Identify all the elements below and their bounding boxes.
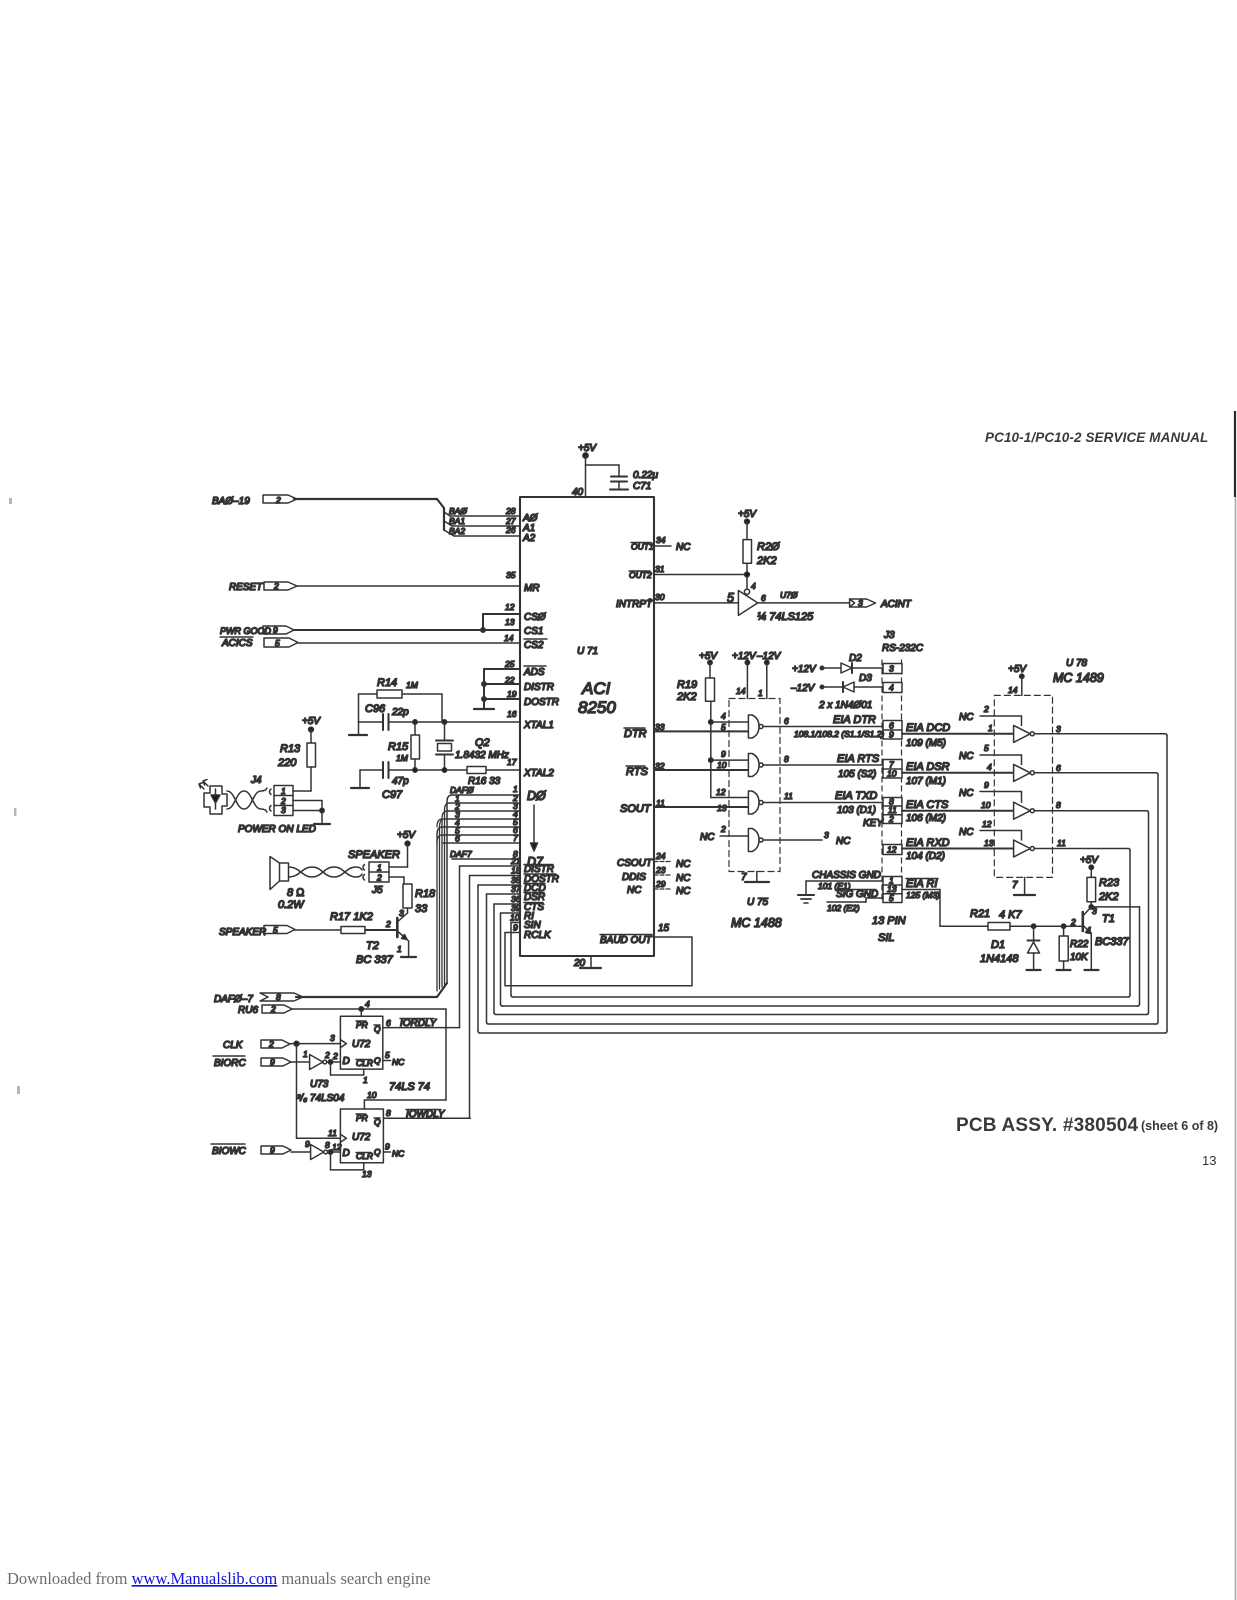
resistor R21 4K7 (940, 923, 1083, 931)
resistor R22 10K (1057, 926, 1071, 970)
svg-text:R14: R14 (377, 677, 397, 689)
svg-text:BA1: BA1 (449, 516, 465, 526)
svg-text:0.22μ: 0.22μ (633, 470, 658, 481)
connector J5 (369, 862, 389, 882)
svg-text:2: 2 (888, 814, 894, 824)
svg-text:2K2: 2K2 (676, 691, 697, 703)
svg-text:7: 7 (513, 833, 518, 843)
J4 pin wires (293, 791, 330, 824)
input arrow ACICS (264, 638, 298, 647)
svg-text:EIA RXD: EIA RXD (906, 837, 950, 849)
svg-text:109 (M5): 109 (M5) (906, 738, 946, 749)
svg-text:T2: T2 (366, 940, 379, 952)
svg-text:RS-232C: RS-232C (882, 643, 924, 654)
svg-text:11: 11 (656, 798, 665, 808)
pin RTS 32 (654, 769, 748, 771)
svg-text:6: 6 (761, 593, 766, 603)
svg-text:NC: NC (676, 886, 691, 897)
svg-text:R18: R18 (415, 888, 436, 900)
svg-text:EIA DTR: EIA DTR (833, 714, 876, 726)
svg-text:Q2: Q2 (475, 737, 490, 749)
power on LED symbol (199, 780, 227, 815)
input arrow BIOWC (261, 1146, 291, 1154)
svg-text:J4: J4 (250, 775, 262, 786)
bus arrow BA0-19 (263, 495, 454, 536)
svg-text:D: D (343, 1148, 350, 1159)
wire D6 pin 7 (442, 842, 520, 844)
svg-text:13 PIN: 13 PIN (872, 915, 906, 927)
input arrow RESET (264, 582, 297, 590)
svg-text:0.2W: 0.2W (278, 899, 305, 911)
svg-text:U 75: U 75 (747, 897, 769, 908)
svg-text:BIOWC: BIOWC (212, 1146, 247, 1157)
svg-text:NC: NC (700, 832, 715, 843)
svg-text:23: 23 (655, 865, 666, 875)
svg-text:NC: NC (392, 1057, 405, 1067)
svg-text:IORDLY: IORDLY (400, 1018, 438, 1029)
svg-text:10: 10 (887, 769, 897, 779)
svg-text:+5V: +5V (1080, 855, 1099, 866)
svg-text:XTAL1: XTAL1 (523, 720, 554, 731)
svg-text:3: 3 (824, 830, 829, 840)
twisted pair to J5 (289, 865, 365, 881)
svg-text:NC: NC (676, 859, 691, 870)
wire RCLK pin 9 / BAUDOUT loop (505, 933, 692, 986)
+12V feed with diode D2 (820, 663, 883, 673)
svg-text:R19: R19 (677, 679, 697, 691)
bus arrow DAF0-7 (260, 993, 303, 1001)
wire BA1 to A1 pin 27 (452, 525, 520, 527)
R19 pull-up rail to gate inputs (709, 701, 749, 797)
svg-text:12: 12 (332, 1142, 342, 1152)
J5 pin1 wire to +5V (389, 844, 408, 868)
svg-text:NC: NC (627, 885, 642, 896)
IC U71 ACI 8250 body (520, 497, 654, 956)
svg-text:CSOUT: CSOUT (617, 858, 653, 869)
svg-text:2 x 1N4Ø01: 2 x 1N4Ø01 (818, 700, 872, 711)
svg-text:8250: 8250 (578, 698, 616, 717)
svg-text:NC: NC (959, 788, 974, 799)
scan speck 2 (14, 808, 17, 816)
receiver gate DCD (1014, 725, 1035, 742)
U72b clear loop pin 13 (331, 1152, 364, 1170)
svg-text:32: 32 (655, 761, 665, 771)
receiver gate RXD (1014, 840, 1035, 857)
svg-text:8 Ω: 8 Ω (287, 887, 305, 899)
svg-text:2: 2 (983, 704, 989, 714)
svg-text:SPEAKER: SPEAKER (219, 927, 266, 938)
-12V rail to U75 pin 1 (765, 660, 769, 698)
svg-text:37: 37 (511, 884, 521, 894)
svg-text:33: 33 (415, 903, 428, 915)
svg-text:4: 4 (889, 683, 894, 693)
J3 pin box 3 (883, 664, 902, 674)
bus return CTS (496, 811, 1149, 1015)
svg-text:A2: A2 (522, 533, 536, 544)
svg-text:BC 337: BC 337 (356, 954, 394, 966)
twisted pair to J4 (227, 788, 271, 812)
svg-text:3: 3 (889, 664, 894, 674)
svg-text:+5V: +5V (397, 830, 416, 841)
input arrow BIORC (261, 1058, 291, 1066)
input arrow PWRGOOD (263, 626, 294, 634)
svg-text:C96: C96 (365, 703, 386, 715)
svg-text:D: D (343, 1056, 350, 1067)
svg-text:CLK: CLK (223, 1040, 244, 1051)
svg-text:NC: NC (959, 751, 974, 762)
svg-text:¼ 74LS125: ¼ 74LS125 (757, 611, 814, 623)
svg-text:5: 5 (727, 591, 734, 605)
svg-text:DAF7: DAF7 (450, 849, 472, 859)
svg-text:19: 19 (507, 689, 517, 699)
nand driver gate RTS (748, 754, 883, 777)
svg-text:MC 1488: MC 1488 (731, 916, 782, 930)
svg-text:1: 1 (303, 1049, 308, 1059)
nand driver gate TXD (748, 791, 883, 814)
svg-text:U7Ø: U7Ø (780, 590, 799, 600)
svg-text:6: 6 (455, 834, 460, 844)
svg-text:D2: D2 (849, 653, 862, 664)
svg-text:5: 5 (721, 722, 726, 732)
svg-text:10: 10 (717, 760, 727, 770)
svg-text:R23: R23 (1099, 877, 1120, 889)
svg-text:22: 22 (504, 675, 515, 685)
svg-text:5: 5 (275, 638, 280, 648)
U75 MC1488 dashed outline (729, 699, 780, 872)
svg-text:KEY: KEY (863, 818, 884, 829)
net RI collector wire (1091, 907, 1139, 1006)
svg-text:DØ: DØ (527, 789, 547, 803)
svg-text:1N4148: 1N4148 (980, 953, 1019, 965)
wire DSR pin 37 (487, 894, 521, 1024)
svg-text:XTAL2: XTAL2 (523, 768, 554, 779)
svg-text:7: 7 (741, 872, 747, 883)
svg-text:9: 9 (385, 1142, 390, 1152)
svg-text:12: 12 (982, 819, 992, 829)
wire DISTR pin 21 / IORDLY net (460, 866, 521, 1028)
svg-text:ACI: ACI (581, 679, 611, 698)
svg-text:74LS 74: 74LS 74 (389, 1081, 430, 1093)
U78 ground pin 7 (1014, 877, 1035, 895)
svg-text:9: 9 (305, 1139, 310, 1149)
inverter U73b (291, 1145, 340, 1160)
resistor R14 1M (359, 690, 443, 722)
svg-text:14: 14 (1008, 685, 1018, 695)
buffer U70 1/4 74LS125 (738, 589, 757, 615)
svg-text:ACINT: ACINT (880, 599, 912, 610)
bus return RI (503, 1005, 1138, 1007)
loudspeaker symbol (270, 857, 289, 890)
svg-text:SOUT: SOUT (620, 803, 652, 815)
svg-text:1: 1 (988, 723, 993, 733)
svg-text:PC10-1/PC10-2 SERVICE MANUAL: PC10-1/PC10-2 SERVICE MANUAL (985, 430, 1208, 445)
svg-text:1: 1 (363, 1075, 368, 1085)
capacitor C71 0.22u (610, 465, 628, 490)
svg-text:INTRPT: INTRPT (616, 599, 653, 610)
svg-text:10: 10 (981, 800, 991, 810)
svg-text:R21: R21 (970, 908, 990, 920)
svg-text:17: 17 (507, 757, 517, 767)
J3 dashed column (882, 660, 902, 902)
svg-text:ACICS: ACICS (221, 638, 253, 649)
wire CTS pin 36 (494, 904, 520, 1015)
svg-text:33: 33 (655, 722, 665, 732)
svg-text:6: 6 (784, 716, 789, 726)
svg-text:8: 8 (784, 754, 789, 764)
svg-text:CSØ: CSØ (524, 612, 547, 623)
net IOWDLY from U72b pin 8 (383, 1117, 470, 1119)
nand driver gate DTR (748, 715, 883, 738)
svg-text:NC: NC (959, 712, 974, 723)
wire EIA RXD to receiver (902, 848, 1014, 850)
wire D3 pin 4 (445, 818, 521, 820)
svg-text:NC: NC (836, 836, 851, 847)
svg-text:T1: T1 (1102, 913, 1115, 925)
svg-text:NC: NC (676, 542, 691, 553)
svg-text:35: 35 (506, 570, 516, 580)
inverter U73a (291, 1055, 340, 1070)
svg-text:DAFØ–7: DAFØ–7 (214, 994, 253, 1005)
wire XTAL2 pin 17 (360, 768, 520, 772)
svg-text:21: 21 (510, 856, 521, 866)
svg-text:2K2: 2K2 (1098, 891, 1119, 903)
svg-text:5: 5 (273, 925, 278, 935)
svg-text:14: 14 (736, 686, 746, 696)
wire D4 pin 5 (442, 826, 520, 828)
scan edge line right (1234, 411, 1236, 497)
svg-text:108.1/108.2 (S1.1/S1.2): 108.1/108.2 (S1.1/S1.2) (794, 729, 884, 739)
wire RI pin 39 (501, 913, 521, 1006)
svg-text:104 (D2): 104 (D2) (906, 851, 945, 862)
NC stub pin 12 (980, 831, 1022, 841)
svg-text:EIA DSR: EIA DSR (906, 761, 950, 773)
svg-text:4: 4 (365, 999, 370, 1009)
capacitor C97 47p (383, 762, 389, 778)
+5V rail top (583, 453, 619, 497)
wire ADS pin 25 (484, 668, 520, 670)
svg-text:C97: C97 (382, 789, 403, 801)
svg-text:–12V: –12V (756, 651, 782, 662)
svg-text:CS2: CS2 (524, 640, 544, 651)
svg-text:R13: R13 (280, 743, 301, 755)
J3 pin box 1/13/5 (883, 877, 902, 903)
+5V for U78 pin 14 (1020, 674, 1024, 695)
+5V for R20 (745, 519, 750, 524)
svg-text:107 (M1): 107 (M1) (906, 776, 946, 787)
svg-text:SPEAKER: SPEAKER (348, 849, 400, 861)
svg-text:U72: U72 (352, 1132, 371, 1143)
svg-text:10: 10 (510, 913, 520, 923)
wire BA2 to A2 pin 26 (454, 535, 520, 537)
svg-text:15: 15 (658, 923, 670, 934)
svg-text:U 78: U 78 (1066, 658, 1088, 669)
svg-text:U 71: U 71 (577, 646, 598, 657)
svg-text:31: 31 (655, 564, 665, 574)
svg-text:NC: NC (392, 1149, 405, 1159)
svg-text:11: 11 (328, 1128, 337, 1138)
sig gnd wire (827, 898, 883, 902)
svg-text:MC 1489: MC 1489 (1053, 671, 1104, 685)
diode D1 1N4148 (1027, 926, 1041, 970)
U75 ground pin 7 (745, 872, 769, 883)
svg-text:BC337: BC337 (1095, 936, 1130, 948)
wire D1 pin 2 (449, 802, 520, 804)
svg-text:5: 5 (385, 1050, 390, 1060)
ground left of C97 (351, 770, 369, 788)
J5 pin2 wire to R18 (389, 877, 404, 884)
svg-text:1: 1 (397, 944, 402, 954)
svg-text:30: 30 (655, 592, 665, 602)
svg-text:20: 20 (573, 958, 586, 969)
-12V feed with diode D3 (820, 682, 883, 692)
svg-text:25: 25 (504, 659, 515, 669)
svg-text:9: 9 (513, 923, 518, 933)
svg-text:105 (S2): 105 (S2) (838, 769, 876, 780)
resistor R16 33 (467, 767, 486, 774)
+12V rail to U75 pin 14 (745, 660, 749, 698)
wire ACICS to CS2 pin 14 (298, 642, 520, 644)
svg-text:POWER ON LED: POWER ON LED (238, 824, 316, 835)
svg-text:R2Ø: R2Ø (757, 541, 781, 553)
svg-text:+5V: +5V (578, 443, 597, 454)
svg-text:9: 9 (721, 749, 726, 759)
svg-text:4: 4 (721, 711, 726, 721)
svg-text:13: 13 (505, 617, 515, 627)
+5V for R23 (1089, 865, 1093, 877)
svg-text:10: 10 (367, 1090, 377, 1100)
transistor T2 BC337 (397, 913, 416, 957)
svg-text:–12V: –12V (790, 683, 816, 694)
svg-text:5: 5 (984, 743, 989, 753)
svg-text:PCB ASSY. #380504: PCB ASSY. #380504 (956, 1115, 1138, 1136)
+5V for R13 (309, 727, 314, 732)
svg-text:3: 3 (330, 1033, 335, 1043)
svg-text:NC: NC (676, 873, 691, 884)
svg-text:28: 28 (505, 506, 516, 516)
wire EIA RI (902, 890, 940, 927)
svg-text:11: 11 (784, 791, 793, 801)
NC stub pin 5 (980, 755, 1022, 764)
svg-text:2: 2 (268, 1039, 274, 1049)
capacitor C96 22p (383, 714, 389, 730)
svg-text:3: 3 (858, 598, 863, 608)
wire SIN pin 10 (511, 923, 520, 998)
svg-text:2K2: 2K2 (756, 555, 777, 567)
svg-text:4 K7: 4 K7 (999, 909, 1023, 921)
svg-text:+5V: +5V (738, 509, 757, 520)
resistor R13 220 (307, 730, 316, 792)
NC stub pin 9 (980, 792, 1022, 803)
svg-text:29: 29 (655, 879, 666, 889)
svg-text:BA2: BA2 (449, 526, 465, 536)
svg-text:EIA CTS: EIA CTS (906, 799, 949, 811)
svg-text:2: 2 (273, 581, 279, 591)
svg-text:EIA RI: EIA RI (906, 878, 937, 890)
svg-text:9: 9 (889, 730, 894, 740)
svg-text:18: 18 (511, 866, 521, 876)
wire DCD pin 38 (478, 885, 520, 1033)
svg-text:+5V: +5V (1008, 664, 1027, 675)
svg-text:+5V: +5V (699, 651, 718, 662)
wire DOSTR pin 19 (484, 698, 520, 700)
J3 pin box 8/11/2 (883, 798, 902, 824)
svg-text:9: 9 (273, 625, 278, 635)
net IORDLY from U72a pin 6 (383, 1027, 460, 1029)
svg-text:RTS: RTS (626, 766, 648, 778)
svg-text:MR: MR (524, 583, 540, 594)
svg-text:+12V: +12V (792, 664, 817, 675)
output arrow ACINT (850, 599, 876, 607)
svg-text:U73: U73 (310, 1079, 329, 1090)
U78 MC1489 dashed outline (994, 695, 1052, 877)
svg-text:Q: Q (374, 1147, 381, 1157)
svg-text:3: 3 (281, 805, 286, 815)
svg-text:39: 39 (511, 903, 521, 913)
svg-text:Downloaded from www.Manualslib: Downloaded from www.Manualslib.com manua… (7, 1569, 431, 1588)
svg-text:DAFØ: DAFØ (450, 785, 475, 795)
+5V for speaker J5 (405, 841, 410, 846)
svg-text:7: 7 (1012, 880, 1018, 891)
bus return SIN (513, 849, 1130, 998)
wire CLK to clock pins (290, 1041, 340, 1138)
svg-text:9: 9 (984, 780, 989, 790)
flip-flop U72b body (340, 1109, 383, 1163)
receiver gate CTS (1014, 802, 1035, 819)
svg-text:PWR GOOD: PWR GOOD (220, 626, 271, 636)
svg-text:+5V: +5V (302, 716, 321, 727)
wire EIA DCD to receiver (902, 733, 1014, 735)
svg-text:220: 220 (277, 757, 297, 769)
svg-text:26: 26 (505, 525, 516, 535)
svg-text:1.8432 MHz: 1.8432 MHz (455, 750, 509, 761)
svg-text:R22: R22 (1070, 939, 1089, 950)
wire CS0 pin 12 (481, 614, 520, 632)
svg-text:12: 12 (887, 845, 897, 855)
wire D7 pin 8 (452, 858, 520, 860)
svg-text:13: 13 (1202, 1153, 1216, 1168)
svg-text:3: 3 (1056, 724, 1061, 734)
ground left of C96 (349, 722, 367, 735)
pin DTR 33 (654, 730, 748, 732)
data bus ramp DAF0..DAF7 (437, 795, 452, 991)
svg-text:6: 6 (1056, 763, 1061, 773)
svg-text:J3: J3 (883, 630, 895, 641)
scan speck 3 (17, 1086, 20, 1094)
svg-text:1: 1 (281, 786, 286, 796)
input arrow CLK (261, 1040, 290, 1048)
+5V for R19 (708, 660, 712, 664)
resistor R19 2K2 (706, 663, 715, 702)
pin OUT1 34 NC (654, 545, 671, 547)
svg-text:1M: 1M (406, 680, 419, 690)
svg-text:12: 12 (505, 602, 515, 612)
svg-text:2: 2 (376, 873, 382, 883)
svg-text:2: 2 (270, 1004, 276, 1014)
svg-text:NC: NC (959, 827, 974, 838)
svg-text:C71: C71 (633, 481, 651, 492)
svg-text:3: 3 (399, 908, 404, 918)
svg-text:BAØ: BAØ (449, 506, 468, 516)
svg-text:13: 13 (717, 803, 727, 813)
svg-text:RU6: RU6 (238, 1005, 258, 1016)
svg-text:2: 2 (324, 1050, 330, 1060)
svg-text:22p: 22p (391, 707, 409, 718)
J3 pin box 12 (883, 845, 902, 855)
svg-text:40: 40 (572, 487, 584, 498)
resistor R15 1M (411, 722, 420, 770)
wire BA0 to A0 pin 28 (450, 515, 520, 517)
spare nand gate NC (720, 829, 822, 852)
